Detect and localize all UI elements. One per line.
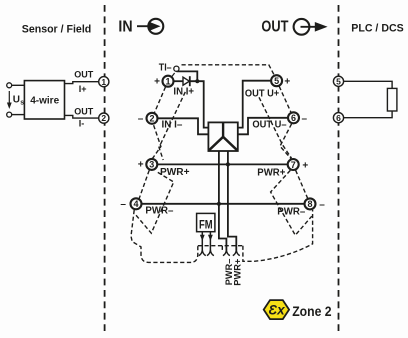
svg-text:I+: I+ xyxy=(79,84,87,94)
wire converter to terminal 6 OUT U- xyxy=(238,118,287,135)
wire 4-wire box to field terminal 1 xyxy=(65,82,99,84)
svg-text:Zone 2: Zone 2 xyxy=(292,303,332,319)
svg-text:OUT U–: OUT U– xyxy=(252,120,287,131)
bus connector fork PWR+ xyxy=(233,250,240,256)
device terminal 2 xyxy=(147,113,158,124)
TI- test socket circle xyxy=(174,66,179,71)
dashed lattice right: 7 to 8 xyxy=(296,170,308,198)
svg-text:OUT: OUT xyxy=(74,107,94,117)
housing bottom dashed line through connector xyxy=(198,245,243,247)
4-wire transmitter box xyxy=(24,81,64,119)
dashed lattice left: 1 to 2 xyxy=(155,87,166,113)
device terminal 3 xyxy=(146,159,157,170)
svg-text:PWR+: PWR+ xyxy=(160,167,190,178)
source terminal top (open circle) xyxy=(7,83,12,88)
device terminal 7 xyxy=(288,159,299,170)
junction dot PWR+ xyxy=(226,162,230,166)
PLC terminal 6 xyxy=(333,113,343,123)
Us voltage arrow xyxy=(7,91,12,109)
field terminal 1 xyxy=(99,77,109,87)
svg-text:7: 7 xyxy=(291,160,296,170)
load resistor xyxy=(387,88,397,111)
svg-text:4-wire: 4-wire xyxy=(30,95,59,106)
svg-text:PWR+: PWR+ xyxy=(233,259,243,286)
device terminal 1 xyxy=(163,76,174,87)
FM wire right with arrow xyxy=(208,232,213,251)
wire diode to IN I+ descent xyxy=(190,81,209,127)
wire terminal 2 IN I- to converter xyxy=(158,118,208,134)
svg-text:3: 3 xyxy=(149,160,154,170)
source terminal bottom (open circle) xyxy=(7,112,12,117)
svg-text:TI–: TI– xyxy=(159,63,172,74)
svg-text:–: – xyxy=(138,114,144,125)
OUT arrow symbol xyxy=(294,19,328,35)
PLC terminal 5 xyxy=(333,76,343,86)
svg-text:2: 2 xyxy=(101,113,106,123)
PWR+ rail terminal 3 to 7 xyxy=(158,163,287,165)
svg-text:+: + xyxy=(154,76,160,87)
svg-text:OUT: OUT xyxy=(261,19,288,36)
field terminal 2 xyxy=(99,113,109,123)
svg-text:IN I–: IN I– xyxy=(162,119,183,130)
FM wire left with arrow xyxy=(200,232,205,251)
svg-text:+: + xyxy=(284,77,290,88)
bus connector fork FM right xyxy=(207,250,214,256)
zone boundary right (dashed vertical) xyxy=(338,5,340,331)
junction dot after diode xyxy=(195,79,199,83)
svg-text:1: 1 xyxy=(101,77,106,87)
svg-text:PWR–: PWR– xyxy=(277,206,305,217)
device terminal 6 xyxy=(288,112,299,123)
svg-text:+: + xyxy=(138,160,144,171)
dashed lattice left: 3 to 4 xyxy=(139,170,149,199)
wire 4-wire box to field terminal 2 xyxy=(65,115,99,118)
svg-text:FM: FM xyxy=(199,218,213,232)
svg-text:6: 6 xyxy=(336,113,341,123)
dashed lattice left: 3 via mid vertex to V below 4 xyxy=(136,172,174,233)
housing bottom-left dashed outline xyxy=(131,210,198,262)
wire load resistor to PLC 6 xyxy=(344,111,392,118)
converter / isolator U1 xyxy=(208,122,237,151)
svg-text:I-: I- xyxy=(79,119,85,129)
dashed lattice right: 7 via left vertex to V below 8 xyxy=(271,170,312,235)
svg-text:8: 8 xyxy=(307,199,312,209)
svg-text:5: 5 xyxy=(336,76,341,86)
svg-text:4: 4 xyxy=(133,199,138,209)
wire PLC 5 to load resistor xyxy=(344,81,392,88)
wire converter to PWR+ bus pin xyxy=(228,151,236,250)
svg-text:5: 5 xyxy=(274,76,279,86)
wire source to 4-wire box bottom xyxy=(12,114,25,116)
housing bottom-right dashed outline up to terminal 8 xyxy=(243,210,313,261)
svg-text:OUT U+: OUT U+ xyxy=(245,88,279,99)
housing top dashed line TI to terminal 5 xyxy=(182,65,274,75)
bus connector fork PWR- xyxy=(223,250,230,256)
device terminal 5 xyxy=(271,75,282,86)
PWR- rail terminal 4 to 8 xyxy=(142,203,304,205)
wire terminal 1 to diode xyxy=(174,80,183,82)
dashed lattice left: 2 to 3 via right vertex xyxy=(153,125,161,158)
svg-text:–: – xyxy=(302,113,308,124)
svg-text:U: U xyxy=(13,94,20,105)
svg-text:PWR–: PWR– xyxy=(145,206,173,217)
dashed lattice right: 5 to 6 xyxy=(279,86,291,112)
svg-text:6: 6 xyxy=(291,113,296,123)
bus connector fork FM left xyxy=(199,250,206,256)
FM box xyxy=(197,213,215,231)
zone boundary left (dashed vertical) xyxy=(104,5,106,335)
junction dot PWR- xyxy=(217,202,221,206)
device terminal 4 xyxy=(131,198,142,209)
Ex hexagon mark xyxy=(264,300,289,319)
svg-text:–: – xyxy=(319,200,325,211)
diode D (test diode) xyxy=(183,76,190,86)
svg-text:IN: IN xyxy=(118,19,132,36)
dashed lattice right: 6 to 7 via left vertex xyxy=(280,124,292,159)
dashed lattice left: chain from IN I+ down to 3 xyxy=(159,92,185,160)
wire converter to terminal 5 OUT U+ xyxy=(238,81,270,128)
svg-text:–: – xyxy=(120,199,126,210)
dashed lattice right: chain from OUT U+ down to 7 xyxy=(259,97,292,158)
connector TI socket to terminal 1 xyxy=(172,73,175,77)
svg-text:PLC / DCS: PLC / DCS xyxy=(351,23,403,35)
wire source to 4-wire box top xyxy=(12,84,25,86)
svg-text:PWR+: PWR+ xyxy=(257,168,285,179)
svg-text:2: 2 xyxy=(149,114,154,124)
svg-text:OUT: OUT xyxy=(74,70,94,80)
svg-text:Ɛx: Ɛx xyxy=(269,303,286,318)
device terminal 8 xyxy=(305,198,316,209)
svg-text:IN I+: IN I+ xyxy=(173,87,194,98)
dashed tick left of PWR forks xyxy=(221,246,223,252)
TI- test tap wire xyxy=(177,71,198,81)
wire converter to PWR- bus pin xyxy=(219,151,227,250)
IN arrow symbol xyxy=(137,19,163,34)
svg-text:1: 1 xyxy=(165,77,170,87)
svg-text:+: + xyxy=(302,161,308,172)
svg-text:Sensor / Field: Sensor / Field xyxy=(22,23,91,35)
